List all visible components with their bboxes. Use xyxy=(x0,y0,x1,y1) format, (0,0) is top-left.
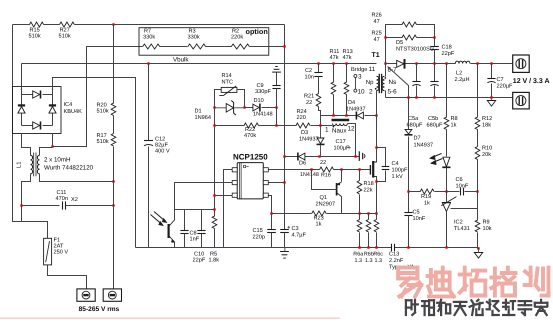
input terminal L xyxy=(77,289,95,301)
capacitor C15 xyxy=(267,230,276,233)
label R27 xyxy=(59,28,71,40)
node C11 right xyxy=(112,204,114,206)
capacitor C5a xyxy=(412,82,420,86)
wire bridge AC right stub to DC- drop xyxy=(53,78,136,248)
resistor R3 xyxy=(188,44,206,49)
diode bridge top xyxy=(33,91,41,99)
svg-text:1N964: 1N964 xyxy=(195,115,211,121)
svg-text:L2: L2 xyxy=(456,71,462,77)
IC U1 pin 1 xyxy=(232,168,237,172)
node bus C5 xyxy=(407,246,409,248)
capacitor C18 xyxy=(430,47,439,50)
resistor R19 xyxy=(420,189,434,194)
wire FB node horizontal xyxy=(175,209,215,211)
node C5a return xyxy=(415,96,417,98)
label D5 xyxy=(396,40,434,53)
optocoupler LED xyxy=(442,157,450,167)
polarity dot T1 secondary xyxy=(384,77,386,79)
node C11 left xyxy=(20,204,22,206)
label D10 xyxy=(253,98,273,118)
svg-text:L1: L1 xyxy=(17,162,23,168)
svg-text:R6b: R6b xyxy=(364,252,374,258)
svg-text:TL431: TL431 xyxy=(454,226,470,232)
svg-text:470k: 470k xyxy=(244,132,256,139)
svg-text:Wurth 744822120: Wurth 744822120 xyxy=(44,165,94,172)
svg-text:Vbulk: Vbulk xyxy=(173,57,189,64)
wire C15 bottom xyxy=(271,233,273,248)
wire jumper 3-10 xyxy=(354,78,356,90)
wire C9 stem top xyxy=(276,73,278,86)
wire C5a bottom xyxy=(416,86,418,98)
wire top rail to HV column xyxy=(75,24,285,26)
wire C2 stem xyxy=(318,64,320,73)
label pin 2 xyxy=(369,88,373,95)
wire R18 top xyxy=(359,170,361,181)
node Vbulk C2 junction xyxy=(317,62,319,64)
resistor R26 xyxy=(402,22,417,27)
IC U1 pin 4 xyxy=(263,193,268,197)
svg-text:C7: C7 xyxy=(497,77,504,83)
svg-text:2N2907: 2N2907 xyxy=(316,202,336,208)
diode D6 xyxy=(298,153,305,161)
resistor R6a xyxy=(357,220,362,233)
wire C18 stem xyxy=(434,38,436,47)
wire R21 to clamp line xyxy=(319,107,321,126)
capacitor C7 xyxy=(487,79,495,83)
resistor R20 xyxy=(111,103,116,116)
svg-text:2 x 10mH: 2 x 10mH xyxy=(44,157,70,164)
svg-text:1.8k: 1.8k xyxy=(209,257,220,264)
fuse F1 xyxy=(44,238,52,265)
svg-text:T1: T1 xyxy=(372,52,380,59)
wire C5b bottom xyxy=(434,86,436,98)
wire C15 stem xyxy=(271,214,273,230)
svg-text:D7: D7 xyxy=(414,136,421,142)
wire C5 bottom xyxy=(408,216,410,248)
label R16 xyxy=(321,173,331,179)
label R8 xyxy=(451,116,458,129)
IC U1 pin 5 xyxy=(263,181,268,185)
svg-text:Np: Np xyxy=(366,79,374,86)
wire option line seg3 xyxy=(206,46,232,48)
resistor R21 xyxy=(316,94,321,107)
svg-text:330k: 330k xyxy=(143,34,155,41)
capacitor C12 xyxy=(144,141,153,146)
jumper pin 10 xyxy=(354,88,365,95)
wire C2 to R21 xyxy=(318,77,320,94)
node aux R22 left end xyxy=(213,124,215,126)
IC U1 NCP1250 body xyxy=(237,163,263,199)
label C10 xyxy=(193,252,206,264)
svg-text:1k: 1k xyxy=(424,200,430,207)
node output R12 xyxy=(476,62,478,64)
IC U1 pin 3 xyxy=(232,193,237,197)
inductor L1 right winding xyxy=(37,155,39,174)
label C2 xyxy=(305,68,314,80)
svg-text:C4: C4 xyxy=(392,161,399,167)
node Naux pin1 xyxy=(319,124,321,126)
wire neutral column xyxy=(113,25,115,289)
node bus R6a xyxy=(358,246,360,248)
svg-text:D3: D3 xyxy=(301,130,308,136)
wire bridge inner top arm xyxy=(22,94,53,96)
wire C10 bottom xyxy=(201,234,203,248)
node top rail junction xyxy=(112,23,114,25)
label C7 xyxy=(497,77,514,90)
label R15 xyxy=(29,28,41,40)
label Naux xyxy=(332,126,355,135)
wire output line L2 to terminal xyxy=(471,63,513,65)
svg-text:47: 47 xyxy=(374,19,380,25)
svg-text:IC4: IC4 xyxy=(64,102,73,108)
svg-text:R25: R25 xyxy=(372,31,382,37)
wire L1 right bottom to neutral column xyxy=(40,174,114,182)
wire R19 right stub xyxy=(435,191,447,193)
diode D7 xyxy=(405,129,413,134)
diode D5 xyxy=(397,59,405,69)
svg-text:220µF: 220µF xyxy=(497,84,514,90)
svg-text:D10: D10 xyxy=(254,98,264,104)
wire option line seg4 xyxy=(250,46,285,48)
svg-text:220: 220 xyxy=(297,115,306,121)
svg-text:220k: 220k xyxy=(231,34,243,41)
svg-text:Ns: Ns xyxy=(389,79,397,86)
svg-text:C13: C13 xyxy=(389,252,399,258)
resistor R15 xyxy=(30,22,44,27)
label D4 xyxy=(346,100,366,113)
output terminal + xyxy=(513,55,530,72)
zener D1 xyxy=(215,101,245,116)
node output C7 xyxy=(490,62,492,64)
jumper pin 3 xyxy=(354,74,362,81)
input terminal N xyxy=(103,289,121,301)
label C17 plus xyxy=(347,145,351,152)
wire C9 to D10 node xyxy=(276,89,278,126)
svg-text:22: 22 xyxy=(320,160,326,166)
label D6 type xyxy=(300,172,319,178)
node bus R6b xyxy=(367,246,369,248)
resistor R25 xyxy=(402,35,417,40)
capacitor C9 xyxy=(272,86,280,89)
wire left AC line xyxy=(13,25,48,239)
wire R26 right xyxy=(417,25,435,38)
wire R25 line left xyxy=(386,37,403,39)
node Vcc column D6 xyxy=(283,155,285,157)
label C5a xyxy=(407,116,424,129)
svg-text:R10: R10 xyxy=(482,146,492,152)
svg-text:Q1: Q1 xyxy=(320,195,327,201)
svg-text:1 kV: 1 kV xyxy=(392,173,403,180)
node pin5 Vcc xyxy=(283,181,285,183)
label D7 xyxy=(414,136,434,149)
wire L1 left bottom to C11 line xyxy=(22,174,31,222)
resistor R24 xyxy=(296,123,310,128)
svg-text:10n: 10n xyxy=(305,74,314,80)
light arrows into opto xyxy=(151,212,168,226)
resistor R2 xyxy=(231,44,249,49)
svg-text:option: option xyxy=(246,27,268,36)
label C4 xyxy=(392,161,408,180)
node C5b return xyxy=(433,96,435,98)
svg-text:11: 11 xyxy=(369,66,376,73)
wire C18 bottom xyxy=(434,50,436,64)
wire sense line xyxy=(272,213,377,215)
wire pin5 Vcc route xyxy=(269,182,285,184)
label D3 xyxy=(299,130,319,143)
wire zener to D10 xyxy=(245,107,253,109)
label R5 xyxy=(209,252,220,264)
svg-text:1.3: 1.3 xyxy=(365,258,373,264)
node Vbulk C12 junction xyxy=(147,62,149,64)
wire C5a stem xyxy=(416,64,418,82)
label C6 xyxy=(456,177,469,190)
node C7 return xyxy=(490,96,492,98)
diode D3 column xyxy=(317,125,325,156)
node Vcc C17 xyxy=(354,155,356,157)
wire D10 to C9 column xyxy=(262,107,277,109)
svg-text:12 V / 3.3 A: 12 V / 3.3 A xyxy=(513,77,550,85)
diode D4 xyxy=(356,112,363,120)
svg-text:1k: 1k xyxy=(316,221,322,228)
label R12 xyxy=(482,116,492,129)
resistor R23 xyxy=(312,211,327,216)
wire secondary ground bus xyxy=(395,247,479,249)
wire option line seg1 xyxy=(140,46,143,48)
wire pin6 to R16 line xyxy=(269,169,320,171)
ground secondary (triangle) xyxy=(474,248,482,258)
wire secondary return line xyxy=(386,97,513,99)
label R9 xyxy=(483,220,492,233)
wire bridge bottom-left stub to L1 xyxy=(22,134,31,156)
svg-text:220p: 220p xyxy=(253,235,265,241)
node aux R24 left xyxy=(275,124,277,126)
IC U1 pin 2 xyxy=(232,181,237,185)
bridge rectifier box IC4 xyxy=(13,87,62,134)
wire R8 to LED xyxy=(446,130,448,157)
svg-text:1N4148: 1N4148 xyxy=(253,112,273,118)
light arrows from LED xyxy=(430,154,443,165)
wire bridge bottom-right stub xyxy=(52,134,54,147)
wire C6 line left xyxy=(447,191,460,193)
node source snubber xyxy=(375,180,377,182)
label R2 xyxy=(231,29,243,41)
wire Q1 collector xyxy=(341,197,343,214)
node sense R6a xyxy=(358,212,360,214)
wire C7 stem xyxy=(491,64,493,79)
svg-text:510k: 510k xyxy=(59,33,71,40)
svg-text:680µF: 680µF xyxy=(427,123,444,129)
wire R6c stubs xyxy=(376,214,378,248)
svg-text:22k: 22k xyxy=(364,187,373,194)
svg-text:C18: C18 xyxy=(442,45,452,51)
svg-text:18k: 18k xyxy=(482,122,491,129)
diode bridge left xyxy=(18,105,25,113)
wire top rail left segment xyxy=(13,24,30,26)
svg-text:1.3: 1.3 xyxy=(375,258,383,264)
svg-text:510k: 510k xyxy=(97,138,109,145)
svg-text:C15: C15 xyxy=(253,228,263,234)
wire C11 line left xyxy=(22,205,60,207)
capacitor C4 xyxy=(382,167,390,170)
wire C5b stem xyxy=(434,64,436,82)
polarity dot T1 primary xyxy=(375,88,377,90)
node gate R16 xyxy=(340,168,342,170)
svg-text:4.7µF: 4.7µF xyxy=(292,233,307,239)
wire pin2 FB route xyxy=(175,183,233,210)
node NTC zener junction xyxy=(243,106,245,108)
wire pin3 CS route xyxy=(215,195,233,197)
svg-text:C5a: C5a xyxy=(408,116,419,122)
option box xyxy=(139,28,269,56)
label R18 xyxy=(364,181,374,194)
svg-text:1: 1 xyxy=(325,127,329,134)
wire Vbulk rail xyxy=(22,63,377,65)
wire drain column xyxy=(376,91,378,162)
svg-text:R8: R8 xyxy=(451,116,458,122)
wire snubber C4 branch xyxy=(377,148,386,182)
label R25 xyxy=(372,31,382,44)
svg-text:100pF: 100pF xyxy=(392,168,408,174)
label R13 xyxy=(343,49,353,61)
pin marker bridge right xyxy=(52,89,53,90)
label Np xyxy=(366,79,374,86)
wire opto collector xyxy=(174,210,176,220)
svg-text:D1: D1 xyxy=(195,109,202,115)
label R11 xyxy=(330,49,340,61)
label C5 xyxy=(413,210,426,223)
IC U1 pin 6 xyxy=(263,168,268,172)
node Vcc D3 xyxy=(318,155,320,157)
output terminal - xyxy=(513,92,530,109)
label R20 xyxy=(97,103,109,115)
node clamp R13 xyxy=(345,114,347,116)
label Naux pin1 xyxy=(325,127,329,134)
resistor R10 xyxy=(475,147,480,160)
label T1 xyxy=(372,52,380,59)
wire HV startup column x=285 xyxy=(284,25,286,230)
label R10 xyxy=(482,146,492,159)
node bus TL431 xyxy=(445,246,447,248)
node D10 C9 xyxy=(275,106,277,108)
label D1 xyxy=(195,109,211,122)
svg-text:85-265 V rms: 85-265 V rms xyxy=(79,306,120,313)
svg-text:2: 2 xyxy=(369,88,373,95)
resistor R6b xyxy=(366,220,371,233)
wire R25 right xyxy=(417,37,435,39)
label C17 xyxy=(334,139,351,152)
label Bridge xyxy=(351,66,376,73)
wire Vcc column x=214.5 xyxy=(214,108,216,248)
transformer T1 primary winding xyxy=(377,76,379,90)
node bus end xyxy=(477,247,479,249)
svg-text:R26: R26 xyxy=(372,13,382,19)
label R22 xyxy=(244,127,256,139)
wire option line seg2 xyxy=(160,46,188,48)
capacitor C6 xyxy=(461,188,464,196)
label R7 xyxy=(143,29,155,41)
transformer T1 secondary winding xyxy=(382,76,384,90)
label R26 xyxy=(372,13,382,26)
svg-text:330k: 330k xyxy=(188,34,200,41)
node secondary top xyxy=(384,62,386,64)
label NCP1250 xyxy=(233,153,268,162)
wire TL431 cathode xyxy=(446,192,448,203)
label C3 xyxy=(292,226,307,239)
wire C3 bottom xyxy=(284,233,286,248)
svg-text:47: 47 xyxy=(374,37,380,43)
svg-text:510k: 510k xyxy=(97,108,109,115)
wire R18 bottom xyxy=(359,195,361,214)
wire top rail between R15 and R27 xyxy=(44,24,60,26)
svg-text:47k: 47k xyxy=(343,54,352,61)
capacitor C10 xyxy=(197,231,205,234)
label option xyxy=(246,27,268,36)
label R6a xyxy=(353,252,363,265)
wire R6a stubs xyxy=(359,214,361,248)
resistor R27 xyxy=(60,22,75,27)
svg-text:1N4937: 1N4937 xyxy=(414,142,434,148)
wire D5 anode xyxy=(386,63,397,65)
svg-text:Naux: Naux xyxy=(332,128,347,135)
wire pin1 GND route xyxy=(224,170,233,248)
node Vbulk R11 junction xyxy=(332,62,334,64)
svg-text:22pF: 22pF xyxy=(193,258,206,264)
svg-text:1nF: 1nF xyxy=(190,237,200,243)
watermark subtitle text xyxy=(406,300,548,315)
resistor R17 xyxy=(111,134,116,147)
wire NTC right xyxy=(237,90,245,108)
svg-text:NCP1250: NCP1250 xyxy=(233,153,268,162)
transformer Naux core xyxy=(332,119,350,121)
resistor R22 xyxy=(244,123,259,128)
svg-text:C3: C3 xyxy=(292,226,299,232)
label R19 xyxy=(421,194,431,207)
label C5b xyxy=(427,115,444,129)
label IC2 xyxy=(454,220,470,233)
transformer Naux winding xyxy=(332,124,347,126)
svg-text:12: 12 xyxy=(348,126,356,133)
wire C12 column top xyxy=(148,64,150,141)
label C18 xyxy=(442,45,455,58)
svg-text:5-6: 5-6 xyxy=(388,88,398,95)
capacitor C2 xyxy=(314,73,322,77)
wire pin4 DRV route xyxy=(269,196,272,214)
svg-text:D6: D6 xyxy=(299,161,306,167)
svg-text:2.2nF: 2.2nF xyxy=(389,258,404,264)
capacitor C13 xyxy=(392,244,395,251)
wire Naux pin12 to Vcc line xyxy=(348,124,356,157)
node sense R6c xyxy=(375,212,377,214)
wire bridge inner bottom arm xyxy=(22,125,53,127)
resistor R9 xyxy=(475,220,480,232)
svg-text:250 V: 250 V xyxy=(54,250,69,256)
label R14 xyxy=(222,73,234,86)
wire C12 column bottom xyxy=(148,147,150,248)
node gate R18 xyxy=(358,168,360,170)
svg-text:Bridge: Bridge xyxy=(351,66,367,73)
wire L1 right winding top xyxy=(40,148,53,156)
wire C10 stem xyxy=(201,210,203,231)
svg-text:C6: C6 xyxy=(456,177,463,183)
wire secondary bottom pin xyxy=(385,91,387,98)
label R17 xyxy=(97,133,109,145)
wire R12 R10 R9 column xyxy=(477,64,479,249)
node bus R6c xyxy=(375,246,377,248)
node output R8 xyxy=(445,62,447,64)
node snubber R25 left xyxy=(384,36,386,38)
wire C7 bottom xyxy=(491,84,493,98)
node clamp drain xyxy=(375,114,377,116)
